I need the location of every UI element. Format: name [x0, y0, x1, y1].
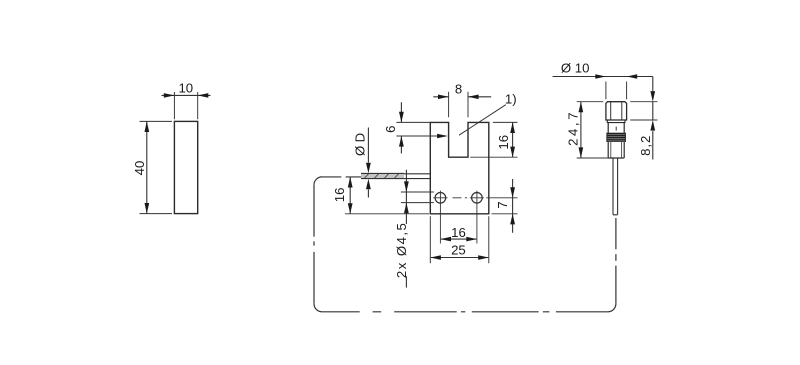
cable break hatched section: [361, 173, 404, 178]
svg-text:16: 16: [451, 225, 466, 240]
cable centerline to corner: [322, 176, 361, 178]
dimension 6 top extension line: [396, 121, 430, 123]
svg-text:16: 16: [496, 135, 511, 150]
svg-text:25: 25: [451, 243, 466, 258]
hole centerline vertical left: [439, 191, 441, 244]
dimension 8,2 line and arrows: [652, 77, 654, 160]
dimension 7 line and arrows: [512, 179, 514, 233]
dimension 25 line and arrows: [431, 257, 488, 259]
svg-text:16: 16: [332, 188, 347, 203]
side view body (left rectangle): [174, 121, 197, 213]
dimension 7 extension lines: [489, 198, 518, 214]
connector knurl band: [607, 133, 626, 142]
dimension 16 left bottom extension line: [345, 213, 429, 215]
svg-text:7: 7: [495, 201, 510, 208]
mounting hole left: [435, 193, 446, 204]
dimension 10 line and arrows: [162, 94, 211, 96]
dimension 24,7 extension lines: [577, 102, 610, 158]
note 1) leader line: [459, 105, 506, 136]
dimension 10 extension lines: [174, 92, 197, 119]
dimension 6 line and arrows: [400, 102, 402, 153]
svg-text:24,7: 24,7: [566, 110, 581, 146]
connector cable double line: [613, 158, 618, 215]
dimension 16 bottom line and arrows: [441, 238, 476, 240]
cable route bottom-right corner: [608, 304, 616, 312]
cable route bottom-left corner: [314, 304, 322, 312]
svg-text:1): 1): [505, 91, 517, 106]
dimension 16 right line and arrows: [512, 122, 514, 157]
connector neck: [608, 123, 624, 133]
dimension 16 left line and arrows: [349, 177, 351, 214]
dimension 40 extension lines: [140, 121, 173, 213]
cable exit stub double line: [404, 174, 430, 179]
diameter D dimension line and arrows: [367, 128, 369, 198]
dimension 16 right extension lines: [470, 122, 517, 157]
hole diameter dimension line and arrows: [405, 170, 407, 288]
cable route left vertical (dash-dot): [313, 185, 315, 304]
cable route top-left corner: [314, 177, 322, 185]
connector washer band: [607, 120, 625, 123]
connector cap inner lines: [611, 102, 622, 120]
optical axis reference line with arrow: [396, 135, 446, 137]
dimension 24,7 line and arrows: [580, 102, 582, 158]
dimension 8 extension lines: [449, 92, 468, 118]
cable route right vertical (dash-dot): [615, 218, 617, 304]
diameter 10 extension lines: [606, 82, 627, 100]
dimension 8 line and arrows: [433, 96, 491, 98]
svg-text:Ø 10: Ø 10: [561, 61, 590, 76]
hole centerline vertical right: [476, 191, 478, 244]
dimension 8,2 extension lines: [630, 102, 657, 120]
svg-text:40: 40: [132, 161, 147, 176]
svg-text:6: 6: [383, 126, 398, 133]
connector cap: [606, 102, 627, 120]
dimension 25 extension lines: [430, 216, 489, 263]
hole centerline horizontal (dash-dot): [433, 197, 489, 199]
svg-text:ØD: ØD: [353, 130, 368, 156]
svg-text:10: 10: [178, 81, 193, 96]
fork body outline: [430, 122, 489, 213]
connector lower body: [608, 142, 624, 158]
svg-text:2x Ø4,5: 2x Ø4,5: [394, 222, 409, 278]
connector lower body inner lines: [611, 142, 622, 158]
cable route bottom line (dash-dot): [322, 311, 608, 313]
svg-text:8: 8: [455, 82, 462, 97]
mounting hole right: [472, 193, 483, 204]
connector center tick: [615, 127, 617, 131]
dimension 40 line and arrows: [146, 121, 148, 213]
svg-text:8,2: 8,2: [638, 135, 653, 156]
hole diameter extension lines: [401, 192, 434, 203]
diameter 10 dimension line and arrows: [553, 76, 653, 78]
